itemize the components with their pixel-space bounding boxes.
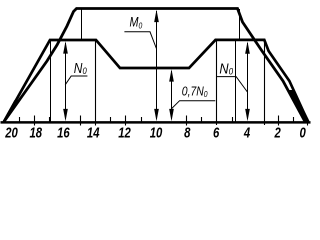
- N0 right label underline+leader: [216, 77, 247, 92]
- svg-text:20: 20: [4, 124, 18, 141]
- 0.7N0 label underline+leader: [172, 101, 216, 109]
- svg-text:0: 0: [299, 124, 306, 141]
- svg-text:16: 16: [57, 124, 70, 141]
- M0 label leader: [124, 32, 156, 49]
- grid line below outer top-right corner: [239, 9, 241, 40]
- svg-text:8: 8: [184, 124, 191, 141]
- axis: [1, 121, 311, 124]
- svg-text:18: 18: [30, 124, 43, 141]
- svg-text:6: 6: [213, 124, 220, 141]
- svg-text:M0: M0: [130, 14, 143, 30]
- grid line mid-right: [235, 40, 237, 122]
- svg-text:14: 14: [87, 124, 100, 141]
- outer envelope M0: [4, 9, 305, 122]
- dimension line 0.7N0 x=171: [169, 69, 174, 121]
- dimension line N0 right x=247.5: [245, 41, 250, 121]
- dimension line M0 x=156.8: [154, 10, 159, 121]
- ticks: [20, 116, 308, 126]
- wedge filler right: [288, 90, 308, 122]
- axis numbers: [4, 124, 306, 141]
- grid line at inner plateau right corner: [264, 40, 266, 125]
- svg-text:0,7N0: 0,7N0: [182, 84, 208, 99]
- svg-text:12: 12: [118, 124, 131, 141]
- inner envelope N0: [4, 40, 308, 122]
- N0 left label underline+leader: [65, 76, 87, 85]
- grid line from inner plateau left corner: [50, 40, 52, 122]
- svg-text:2: 2: [274, 124, 282, 141]
- svg-text:4: 4: [243, 124, 251, 141]
- wedge filler left: [3, 100, 21, 122]
- svg-text:10: 10: [150, 124, 163, 141]
- svg-text:N0: N0: [219, 59, 233, 76]
- grid line value 14 / plateau right corner: [95, 40, 97, 126]
- grid line right plateau left corner: [216, 40, 218, 125]
- svg-text:N0: N0: [74, 60, 87, 77]
- dimension line N0 left x=65.2: [63, 41, 68, 121]
- grid line below outer top-left corner: [81, 9, 83, 40]
